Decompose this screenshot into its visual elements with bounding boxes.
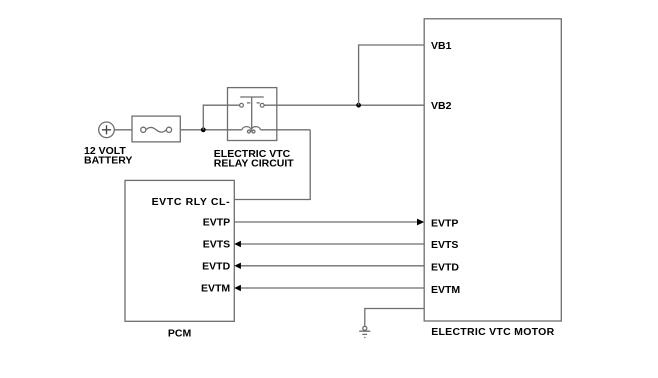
PCM box [125,180,234,321]
relay contact terminals [240,103,265,107]
fuse F1 [132,116,180,142]
label ELECTRIC VTC RELAY CIRCUIT [214,148,295,170]
wire relay coil to EVTC RLY CL- [234,130,310,200]
ground G1 [359,326,370,337]
svg-text:BATTERY: BATTERY [84,155,132,167]
wire EVTS [234,241,424,247]
svg-text:VB1: VB1 [431,40,452,52]
relay coil [206,127,311,133]
wire EVTM [234,285,424,291]
svg-text:PCM: PCM [168,327,192,339]
svg-text:EVTP: EVTP [431,217,458,229]
wire relay contact to VB2 [264,104,424,106]
wire EVTD [234,263,424,269]
svg-text:EVTC RLY CL-: EVTC RLY CL- [152,196,231,208]
node A (junction dot) [201,127,206,132]
svg-text:EVTP: EVTP [203,216,230,228]
battery B1 (12 volt battery symbol) [99,122,115,138]
label 12 VOLT BATTERY [84,145,132,167]
svg-text:EVTM: EVTM [201,283,230,295]
relay K1 box (electric VTC relay circuit) [228,88,277,141]
svg-text:EVTD: EVTD [431,261,459,273]
svg-text:EVTM: EVTM [431,284,460,296]
svg-text:EVTS: EVTS [431,239,458,251]
wire motor to ground [365,309,424,327]
wire node B to VB1 [359,45,425,105]
svg-text:EVTD: EVTD [202,261,230,273]
node B (junction dot on VB2 wire) [356,103,361,108]
motor M1 box (electric VTC motor) [424,19,561,321]
svg-text:ELECTRIC VTC MOTOR: ELECTRIC VTC MOTOR [431,326,554,338]
wire EVTP [234,219,424,226]
svg-text:RELAY CIRCUIT: RELAY CIRCUIT [214,158,295,170]
svg-text:EVTS: EVTS [203,238,230,250]
wire battery to fuse [114,129,132,131]
wire fuse to node A [180,129,203,131]
svg-text:VB2: VB2 [431,100,452,112]
relay contact armature (T bar) [240,97,264,129]
wire node A up to relay contact [203,105,239,130]
